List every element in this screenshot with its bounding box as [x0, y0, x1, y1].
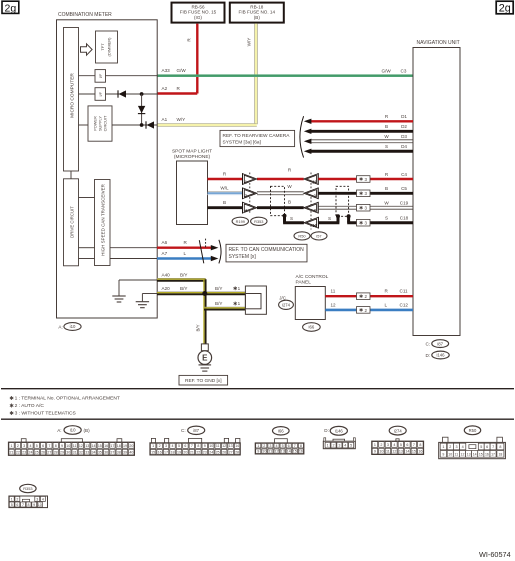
svg-text:(MICROPHONE): (MICROPHONE) — [174, 154, 211, 160]
svg-text:I/F: I/F — [98, 91, 103, 96]
svg-text:B: B — [288, 199, 291, 204]
svg-text:34: 34 — [92, 450, 96, 454]
fuse RB-56 FIB FUSE NO. 15 (IG) — [172, 3, 225, 23]
svg-text:1: 1 — [257, 444, 259, 448]
svg-text:7: 7 — [294, 444, 296, 448]
wire W/Y from fuse RB-18 to pin A1 — [157, 24, 258, 127]
svg-text:3: 3 — [387, 443, 389, 447]
svg-text:8: 8 — [499, 445, 501, 449]
wire W C19 to navigation — [318, 201, 413, 210]
svg-text:21: 21 — [190, 450, 194, 454]
svg-text:B/Y: B/Y — [215, 301, 222, 306]
svg-text:i57: i57 — [316, 234, 321, 239]
junction node on A1 line — [140, 123, 144, 127]
svg-text:W: W — [384, 201, 389, 206]
connector labels R50 i57 — [294, 232, 327, 240]
svg-text:PANEL: PANEL — [296, 280, 312, 286]
svg-text:R199: R199 — [236, 219, 245, 224]
wire S D4 from rearview camera to navigation — [304, 144, 413, 154]
pin label A2 R — [162, 86, 181, 91]
combination meter outline — [57, 12, 158, 318]
inline connector terminal 11 — [304, 173, 319, 185]
svg-text:E: E — [202, 354, 208, 363]
wire A7 L CAN low — [157, 251, 218, 261]
rearview camera brace arc — [300, 116, 304, 157]
wire micro computer to I/F 1 — [79, 75, 96, 77]
svg-text:SPOT MAP LIGHT: SPOT MAP LIGHT — [172, 149, 212, 155]
svg-text:2: 2 — [17, 444, 19, 448]
svg-text:5: 5 — [350, 444, 352, 448]
internal ground wire from pin A20 — [142, 294, 157, 302]
svg-text:HIGH SPEED CAN TRANSCEIVER: HIGH SPEED CAN TRANSCEIVER — [101, 183, 106, 255]
optional boxes *3 on microphone wires — [357, 176, 371, 183]
svg-text:1: 1 — [238, 286, 241, 291]
svg-text:5: 5 — [178, 444, 180, 448]
pinout connector D i146 5pin — [323, 426, 355, 448]
A/C control panel box — [295, 274, 328, 320]
svg-text:REF. TO GND [x]: REF. TO GND [x] — [185, 378, 222, 384]
pinout connector R50 18pin — [439, 426, 506, 459]
svg-text:12: 12 — [222, 444, 226, 448]
svg-text:A6: A6 — [162, 240, 168, 245]
hollow arrow to TFT — [81, 44, 93, 55]
wire I/F 2 to meter edge pin A2 with diode — [106, 93, 158, 95]
svg-text:D:: D: — [426, 353, 431, 358]
svg-text:4: 4 — [29, 444, 31, 448]
svg-text:TFT: TFT — [100, 43, 105, 51]
wire A6 internal — [79, 247, 158, 249]
svg-text:24: 24 — [209, 450, 213, 454]
svg-text:16: 16 — [485, 453, 489, 457]
svg-text:i87: i87 — [437, 341, 443, 346]
wire drive circuit to CAN transceiver — [79, 197, 95, 199]
wire A7 internal — [79, 258, 158, 260]
svg-text:S: S — [328, 216, 331, 221]
inline connector terminal 1 — [243, 173, 258, 185]
internal ground wire from pin A40 — [119, 280, 157, 296]
svg-text:A7: A7 — [162, 251, 168, 256]
svg-text:33: 33 — [85, 450, 89, 454]
svg-text:24: 24 — [28, 450, 32, 454]
svg-text:D3: D3 — [401, 134, 407, 139]
svg-text:i274: i274 — [394, 428, 403, 433]
svg-text:A20: A20 — [162, 286, 171, 291]
svg-text:C18: C18 — [400, 216, 409, 221]
svg-text:8: 8 — [300, 444, 302, 448]
wire W between connector columns — [257, 184, 304, 195]
wire A20 B/Y to joint connector — [157, 286, 245, 294]
svg-text:4: 4 — [275, 444, 277, 448]
power supply circuit block — [88, 106, 112, 141]
svg-text:11: 11 — [73, 444, 77, 448]
svg-text:20: 20 — [183, 450, 187, 454]
CAN brace arc — [219, 240, 221, 264]
ref to GND box — [179, 375, 228, 385]
svg-text:12: 12 — [461, 453, 465, 457]
svg-text:4: 4 — [462, 445, 464, 449]
svg-text:1: 1 — [442, 445, 444, 449]
svg-text:REF. TO CAN COMMUNICATION: REF. TO CAN COMMUNICATION — [229, 247, 305, 253]
svg-text:5: 5 — [282, 444, 284, 448]
wire B C5 to navigation — [318, 186, 413, 193]
svg-text:11: 11 — [455, 453, 459, 457]
svg-text:2: 2 — [449, 445, 451, 449]
svg-text:9: 9 — [442, 453, 444, 457]
svg-text:19: 19 — [123, 444, 127, 448]
svg-text:1: 1 — [238, 301, 241, 306]
svg-text:11: 11 — [216, 444, 220, 448]
svg-text:6: 6 — [406, 443, 408, 447]
svg-text:11: 11 — [331, 289, 336, 294]
svg-text:W/L: W/L — [220, 186, 229, 191]
svg-text:W/Y: W/Y — [177, 117, 186, 122]
svg-text:C3: C3 — [401, 68, 407, 73]
svg-text:D4: D4 — [401, 144, 407, 149]
svg-text:1 : TERMINAL No. OPTIONAL ARRA: 1 : TERMINAL No. OPTIONAL ARRANGEMENT — [15, 396, 120, 402]
svg-text:15: 15 — [479, 453, 483, 457]
svg-text:1: 1 — [152, 444, 154, 448]
svg-text:10: 10 — [209, 444, 213, 448]
svg-text:2g: 2g — [499, 3, 511, 15]
svg-text:D:: D: — [324, 428, 329, 433]
svg-text:22: 22 — [196, 450, 200, 454]
svg-text:5: 5 — [36, 444, 38, 448]
svg-text:G/W: G/W — [382, 68, 392, 73]
svg-text:10: 10 — [38, 503, 42, 507]
svg-text:6: 6 — [42, 444, 44, 448]
svg-text:L: L — [385, 302, 388, 307]
wire R between connector columns — [257, 168, 304, 180]
svg-text:4: 4 — [393, 443, 395, 447]
svg-text:2: 2 — [263, 444, 265, 448]
svg-text:8: 8 — [419, 443, 421, 447]
svg-text:MICRO COMPUTER: MICRO COMPUTER — [70, 73, 76, 118]
svg-text:W: W — [384, 134, 389, 139]
wire A6 R CAN high — [157, 240, 218, 250]
svg-text:7: 7 — [22, 503, 24, 507]
svg-text:S: S — [290, 216, 293, 221]
svg-text:R50: R50 — [298, 234, 306, 239]
spot map light microphone box — [172, 149, 212, 225]
svg-text:6: 6 — [486, 445, 488, 449]
svg-text:13: 13 — [229, 444, 233, 448]
svg-text:B: B — [223, 200, 226, 205]
svg-text:10: 10 — [379, 450, 383, 454]
svg-text:10: 10 — [448, 453, 452, 457]
wire A40 B/Y — [157, 272, 206, 280]
svg-text:6: 6 — [288, 444, 290, 448]
svg-text:C12: C12 — [400, 302, 409, 307]
svg-text:3: 3 — [269, 444, 271, 448]
svg-text:23: 23 — [22, 450, 26, 454]
wire I/F 1 to meter edge pin A33 — [106, 75, 158, 77]
fuse RB-18 FIB FUSE NO. 14 (B) — [230, 3, 284, 23]
svg-text:i66: i66 — [309, 325, 315, 330]
svg-text:25: 25 — [35, 450, 39, 454]
svg-text:9: 9 — [204, 444, 206, 448]
shield box 2 dashed — [336, 186, 349, 216]
svg-text:W: W — [287, 184, 292, 189]
I/F block 2 — [95, 88, 106, 101]
svg-text:W/Y: W/Y — [247, 38, 252, 47]
svg-text:7: 7 — [413, 443, 415, 447]
svg-text:R353: R353 — [254, 219, 263, 224]
svg-text:C4: C4 — [401, 172, 407, 177]
svg-text:15: 15 — [151, 450, 155, 454]
wire R D1 from rearview camera to navigation — [304, 114, 413, 124]
svg-text:7: 7 — [492, 445, 494, 449]
twisted pair marker — [199, 239, 205, 264]
wire micro computer to I/F 2 — [79, 93, 96, 95]
svg-text:(B): (B) — [254, 15, 261, 20]
svg-text:2: 2 — [159, 444, 161, 448]
ref to CAN communication system box — [226, 244, 307, 262]
wire junction A2 down to A1 line — [141, 94, 143, 125]
wire W/L microphone to connector R199 — [208, 186, 243, 195]
svg-text:3: 3 — [338, 444, 340, 448]
svg-text:15: 15 — [412, 450, 416, 454]
svg-text:2g: 2g — [5, 2, 17, 14]
svg-text:C:: C: — [181, 428, 186, 433]
wire B between connector columns — [257, 199, 304, 207]
svg-text:SYSTEM [3a] [6a]: SYSTEM [3a] [6a] — [223, 140, 261, 146]
section label 2g top-right — [496, 1, 513, 14]
pinout connector i274 16pin — [372, 426, 424, 454]
ground symbol 1 in meter — [112, 296, 125, 302]
shield drain junction and S wire to connector 10 — [283, 214, 304, 223]
svg-text:D1: D1 — [401, 114, 407, 119]
svg-text:25: 25 — [216, 450, 220, 454]
svg-text:13: 13 — [467, 453, 471, 457]
svg-text:4: 4 — [171, 444, 173, 448]
ground E symbol — [198, 344, 212, 371]
svg-text:11: 11 — [269, 450, 273, 454]
svg-text:32: 32 — [79, 450, 83, 454]
svg-text:C5: C5 — [401, 186, 407, 191]
svg-text:A/C CONTROL: A/C CONTROL — [296, 274, 329, 280]
svg-text:19: 19 — [177, 450, 181, 454]
svg-text:18: 18 — [170, 450, 174, 454]
wire S C18 to navigation — [318, 214, 413, 222]
svg-text:I/F: I/F — [98, 73, 103, 78]
svg-text:SYSTEM [x]: SYSTEM [x] — [229, 254, 257, 260]
inline connector terminal 2 — [304, 188, 319, 200]
svg-text:REF. TO REARVIEW CAMERA: REF. TO REARVIEW CAMERA — [223, 133, 291, 139]
svg-text:A2: A2 — [162, 86, 168, 91]
pinout connector i66 16pin — [255, 427, 304, 454]
svg-text:i10: i10 — [70, 428, 76, 433]
svg-text:2 : AUTO A/C: 2 : AUTO A/C — [15, 403, 45, 409]
svg-text:5: 5 — [11, 503, 13, 507]
svg-text:39: 39 — [123, 450, 127, 454]
svg-text:1: 1 — [11, 444, 13, 448]
svg-text:2: 2 — [380, 443, 382, 447]
svg-text:18: 18 — [117, 444, 121, 448]
svg-text:3: 3 — [23, 444, 25, 448]
inline connector terminal 10 — [304, 217, 319, 229]
svg-text:A40: A40 — [162, 272, 171, 277]
junction node on A2 line — [140, 92, 144, 96]
svg-text:C:: C: — [426, 342, 431, 347]
svg-text:40: 40 — [129, 450, 133, 454]
ref to rearview camera system box — [220, 130, 295, 146]
svg-text:1: 1 — [374, 443, 376, 447]
svg-text:30: 30 — [66, 450, 70, 454]
joint connector J/C i274 — [245, 286, 293, 314]
wire 12 L C12 to navigation — [325, 302, 413, 310]
svg-text:27: 27 — [47, 450, 51, 454]
svg-text:5: 5 — [400, 443, 402, 447]
svg-text:i146: i146 — [335, 429, 344, 434]
svg-text:2: 2 — [16, 498, 18, 502]
svg-text:11: 11 — [312, 179, 317, 184]
svg-text:10: 10 — [312, 223, 317, 228]
svg-text:B: B — [385, 186, 388, 191]
svg-text:3: 3 — [455, 445, 457, 449]
svg-text:B/Y: B/Y — [180, 272, 187, 277]
wire A33 G/W combination meter to navigation C3 — [157, 68, 413, 76]
ground symbol 2 in meter — [136, 302, 149, 308]
svg-text:27: 27 — [229, 450, 233, 454]
svg-text:C11: C11 — [400, 289, 409, 294]
svg-text:B/Y: B/Y — [180, 286, 187, 291]
svg-text:9: 9 — [61, 444, 63, 448]
wire micro computer to drive circuit — [70, 171, 72, 179]
svg-text:12: 12 — [79, 444, 83, 448]
svg-text:D2: D2 — [401, 124, 407, 129]
diode vertical between A2 and A1 lines — [138, 106, 145, 114]
svg-text:14: 14 — [235, 444, 239, 448]
svg-text:15: 15 — [98, 444, 102, 448]
svg-text:10: 10 — [262, 450, 266, 454]
wire R from fuse RB-56 to pin A2 — [157, 24, 199, 94]
svg-text:3 : WITHOUT TELEMATICS: 3 : WITHOUT TELEMATICS — [15, 411, 77, 417]
svg-text:L: L — [184, 251, 187, 256]
svg-text:B/Y: B/Y — [195, 324, 200, 331]
svg-text:S: S — [385, 144, 388, 149]
svg-text:11: 11 — [386, 450, 390, 454]
svg-text:18: 18 — [498, 453, 502, 457]
svg-text:10: 10 — [66, 444, 70, 448]
svg-text:20: 20 — [129, 444, 133, 448]
svg-text:S: S — [385, 216, 388, 221]
svg-text:9: 9 — [33, 503, 35, 507]
svg-text:2: 2 — [332, 444, 334, 448]
svg-text:16: 16 — [104, 444, 108, 448]
svg-text:G/W: G/W — [177, 68, 187, 73]
svg-text:R50: R50 — [469, 428, 477, 433]
svg-text:9: 9 — [374, 450, 376, 454]
svg-text:J/C: J/C — [279, 295, 286, 300]
svg-text:(IG): (IG) — [194, 15, 202, 20]
svg-text:A:: A: — [58, 324, 62, 329]
svg-text:A33: A33 — [162, 68, 171, 73]
svg-text:7: 7 — [48, 444, 50, 448]
drive circuit block — [64, 179, 79, 266]
svg-text:(B): (B) — [84, 428, 91, 433]
svg-text:26: 26 — [41, 450, 45, 454]
optional boxes *2 on A/C wires — [357, 293, 371, 300]
svg-text:14: 14 — [287, 450, 291, 454]
note *1 terminal optional arrangement — [11, 396, 13, 400]
svg-text:R353: R353 — [23, 486, 32, 491]
svg-text:31: 31 — [73, 450, 77, 454]
svg-text:C19: C19 — [400, 201, 409, 206]
svg-text:12: 12 — [274, 450, 278, 454]
shield box 1 dashed — [271, 186, 285, 215]
svg-text:37: 37 — [110, 450, 114, 454]
I/F block 1 — [95, 70, 106, 83]
wire B D2 from rearview camera to navigation — [304, 124, 413, 134]
note *3 without telematics — [11, 411, 13, 415]
wire R C4 to navigation — [318, 172, 413, 179]
inline connector terminal 3b — [304, 202, 319, 214]
svg-text:28: 28 — [235, 450, 239, 454]
pinout connector A i10 (B) 40pin — [8, 426, 134, 456]
svg-text:17: 17 — [110, 444, 114, 448]
diode on A1 line — [146, 121, 154, 128]
separator line lower — [1, 418, 514, 420]
svg-text:WI-60574: WI-60574 — [479, 550, 511, 559]
svg-text:3: 3 — [36, 498, 38, 502]
svg-text:7: 7 — [191, 444, 193, 448]
svg-text:9: 9 — [257, 450, 259, 454]
diode on A2 line — [118, 90, 126, 97]
svg-text:13: 13 — [399, 450, 403, 454]
svg-text:1: 1 — [327, 444, 329, 448]
svg-text:i87: i87 — [193, 428, 199, 433]
navigation unit outline — [413, 40, 460, 336]
connector label A i10 — [58, 323, 81, 331]
svg-text:A:: A: — [57, 428, 61, 433]
svg-text:4: 4 — [344, 444, 346, 448]
svg-text:29: 29 — [60, 450, 64, 454]
svg-text:4: 4 — [42, 498, 44, 502]
svg-text:35: 35 — [98, 450, 102, 454]
svg-text:26: 26 — [222, 450, 226, 454]
wire B/Y branch to joint connector row 2 — [204, 301, 245, 309]
svg-text:16: 16 — [418, 450, 422, 454]
svg-text:17: 17 — [164, 450, 168, 454]
svg-text:38: 38 — [117, 450, 121, 454]
svg-text:6: 6 — [16, 503, 18, 507]
svg-text:DRIVE CIRCUIT: DRIVE CIRCUIT — [70, 206, 75, 238]
svg-text:8: 8 — [55, 444, 57, 448]
micro computer block — [64, 28, 79, 172]
svg-text:6: 6 — [184, 444, 186, 448]
svg-text:15: 15 — [293, 450, 297, 454]
svg-text:13: 13 — [281, 450, 285, 454]
wire B/Y vertical to ground E — [195, 279, 205, 344]
note *2 auto A/C — [11, 404, 13, 408]
svg-text:21: 21 — [10, 450, 14, 454]
connector labels R199 R353 — [232, 217, 267, 225]
connector label D i146 — [426, 351, 450, 359]
connector label C i87 — [426, 340, 449, 348]
svg-text:14: 14 — [92, 444, 96, 448]
pinout connector R353 10pin — [9, 484, 48, 507]
svg-text:12: 12 — [392, 450, 396, 454]
svg-text:14: 14 — [473, 453, 477, 457]
wire W D3 from rearview camera to navigation — [304, 134, 413, 144]
svg-text:B: B — [385, 124, 388, 129]
high speed CAN transceiver block — [95, 180, 111, 266]
wire power supply circuit to meter edge pin A1 — [79, 124, 158, 126]
svg-text:12: 12 — [331, 302, 337, 307]
TFT dimmer block — [96, 31, 118, 63]
svg-text:A1: A1 — [162, 117, 168, 122]
svg-text:i66: i66 — [278, 429, 284, 434]
